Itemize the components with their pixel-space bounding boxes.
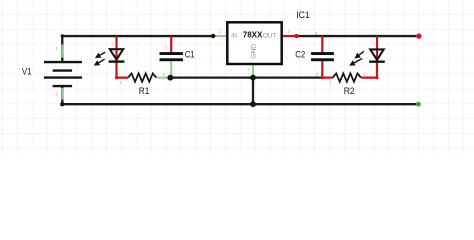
- svg-text:C1: C1: [185, 50, 195, 60]
- svg-text:OUT: OUT: [263, 32, 277, 39]
- svg-text:V1: V1: [22, 66, 32, 76]
- svg-text:R2: R2: [344, 86, 355, 96]
- svg-text:1: 1: [315, 31, 318, 37]
- svg-text:C2: C2: [295, 49, 305, 59]
- svg-text:GND: GND: [250, 44, 257, 59]
- svg-text:IC1: IC1: [296, 10, 310, 20]
- svg-text:78XX: 78XX: [243, 30, 263, 40]
- svg-text:R1: R1: [139, 86, 150, 96]
- svg-text:IN: IN: [231, 32, 237, 39]
